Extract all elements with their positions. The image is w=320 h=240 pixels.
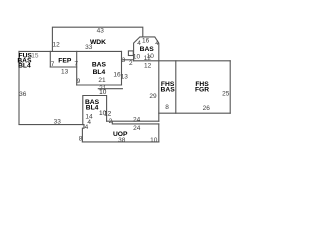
- svg-text:38: 38: [118, 137, 126, 144]
- svg-text:10: 10: [147, 53, 155, 60]
- svg-text:7: 7: [74, 61, 78, 68]
- svg-text:26: 26: [203, 105, 211, 112]
- step strip line A: [107, 120, 159, 122]
- svg-text:4: 4: [155, 40, 159, 47]
- svg-text:43: 43: [97, 27, 105, 34]
- svg-text:21: 21: [98, 77, 106, 84]
- svg-text:8: 8: [79, 135, 83, 142]
- chimney square: [128, 51, 133, 56]
- bottom edge 33: [19, 125, 84, 142]
- wdk deck outline: [52, 27, 142, 51]
- bay bottom / fhs top line: [134, 60, 231, 62]
- uop bottom: [82, 141, 158, 143]
- fhs divider: [175, 61, 177, 113]
- fhs bottom: [159, 112, 230, 114]
- step line below main box: [98, 88, 122, 90]
- uop right wall: [158, 124, 160, 142]
- uop top line B: [112, 121, 159, 124]
- svg-text:29: 29: [149, 93, 157, 100]
- svg-text:16: 16: [142, 38, 150, 45]
- svg-text:12: 12: [104, 110, 112, 117]
- svg-text:36: 36: [19, 91, 27, 98]
- svg-text:13: 13: [121, 74, 129, 81]
- svg-text:33: 33: [54, 118, 62, 125]
- svg-text:12: 12: [52, 42, 60, 49]
- svg-text:3: 3: [122, 57, 126, 64]
- svg-text:10: 10: [133, 54, 141, 61]
- svg-text:25: 25: [222, 90, 230, 97]
- connector line at bay bottom left: [122, 59, 134, 61]
- svg-text:FGR: FGR: [195, 87, 209, 94]
- svg-text:BL4: BL4: [93, 69, 106, 76]
- main box right wall: [121, 51, 123, 85]
- svg-text:12: 12: [144, 63, 152, 70]
- fgr east wall: [229, 61, 231, 113]
- svg-text:BAS: BAS: [140, 46, 155, 53]
- main box bottom: [77, 84, 122, 86]
- svg-text:4: 4: [85, 124, 89, 131]
- svg-text:2: 2: [109, 118, 113, 125]
- svg-text:33: 33: [85, 44, 93, 51]
- fep bottom: [50, 66, 76, 68]
- main box left wall: [76, 51, 78, 85]
- svg-text:24: 24: [133, 117, 141, 124]
- bay polygon: [134, 37, 159, 121]
- svg-text:24: 24: [133, 125, 141, 132]
- svg-text:10: 10: [99, 89, 107, 96]
- svg-text:WDK: WDK: [90, 39, 106, 46]
- svg-text:7: 7: [51, 61, 55, 68]
- house top edge: [19, 50, 122, 52]
- svg-text:2: 2: [129, 60, 133, 67]
- svg-text:8: 8: [165, 104, 169, 111]
- left block west wall: [18, 51, 20, 124]
- svg-text:10: 10: [150, 137, 158, 144]
- svg-text:FEP: FEP: [58, 57, 72, 64]
- svg-text:BAS: BAS: [92, 62, 107, 69]
- svg-text:15: 15: [31, 52, 39, 59]
- svg-text:BL4: BL4: [86, 105, 99, 112]
- svg-text:BAS: BAS: [161, 87, 176, 94]
- svg-text:BL4: BL4: [18, 63, 31, 70]
- svg-text:13: 13: [61, 68, 69, 75]
- small rear box: [83, 96, 107, 125]
- svg-text:9: 9: [77, 78, 81, 85]
- fep left wall: [49, 51, 51, 67]
